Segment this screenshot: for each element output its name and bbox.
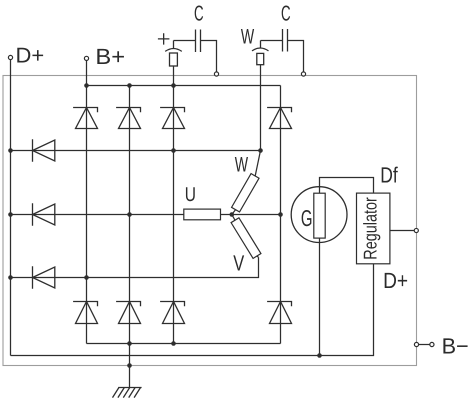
ground symbol <box>113 387 142 397</box>
terminal circle C1 to frame <box>214 72 218 76</box>
wire exciter row 2 <box>11 214 184 216</box>
rotor generator G <box>291 187 347 243</box>
terminal B+ <box>84 56 88 60</box>
diode bottom 4 <box>267 302 291 324</box>
wire regulator to frame <box>390 230 414 232</box>
diode bottom 3 <box>160 302 184 324</box>
wire D+ bottom bus to regulator <box>11 264 374 356</box>
blade connector B+ <box>165 41 182 67</box>
diode top 1 <box>73 108 97 129</box>
exciter diode 1 <box>33 139 55 161</box>
wire phase 3 (W) column <box>173 66 175 344</box>
wire star point to 4th column <box>232 214 281 216</box>
terminal D+ <box>8 55 12 59</box>
svg-text:D+: D+ <box>16 44 45 68</box>
wire exciter row 1 <box>11 150 261 152</box>
stator winding V <box>231 218 261 259</box>
wire B- stub <box>419 344 430 346</box>
label + (B+ blade) <box>158 33 170 44</box>
terminal frame B- <box>414 342 418 346</box>
diode bottom 2 <box>116 302 140 324</box>
stator winding W <box>232 174 259 212</box>
diode bottom 1 <box>73 302 97 324</box>
svg-text:W: W <box>235 153 248 176</box>
terminal B- <box>430 342 434 346</box>
wire phase 2 (U) column <box>129 86 131 388</box>
diode top 3 <box>160 108 184 129</box>
alternator housing frame (ground) <box>3 76 417 366</box>
wire star to W winding <box>232 210 236 215</box>
wire V winding to row 3 <box>257 256 259 257</box>
svg-text:C: C <box>281 2 291 26</box>
wire D+ vertical bus <box>10 60 12 356</box>
wire W terminal drop <box>260 65 262 151</box>
svg-text:D+: D+ <box>383 268 408 293</box>
svg-text:U: U <box>185 184 196 206</box>
svg-text:Df: Df <box>380 162 398 187</box>
svg-text:G: G <box>301 205 313 231</box>
wire star-point column <box>280 86 282 344</box>
wire negative bus <box>87 343 281 345</box>
wire B+ bus <box>87 85 281 87</box>
wire star point to U winding <box>221 214 232 216</box>
svg-text:Regulator: Regulator <box>360 197 381 260</box>
wire star to V winding <box>232 215 235 221</box>
stator winding U <box>184 209 221 220</box>
wire exciter row 3 <box>11 257 259 277</box>
diode top 4 <box>267 108 291 129</box>
svg-text:V: V <box>233 251 244 276</box>
svg-text:C: C <box>194 2 204 26</box>
capacitor C1 <box>174 30 217 72</box>
terminal regulator ground <box>414 228 418 232</box>
terminal circle C2 to frame <box>301 72 305 76</box>
svg-text:B+: B+ <box>95 44 125 69</box>
wire phase 1 (V) column <box>86 86 88 344</box>
wire W winding to phase node <box>255 151 260 176</box>
exciter diode 3 <box>33 266 55 288</box>
wire field to Df <box>320 178 374 194</box>
wire field to D+ bus <box>319 238 321 355</box>
capacitor C2 <box>261 29 304 72</box>
svg-text:W: W <box>241 26 254 49</box>
blade connector W <box>252 41 269 65</box>
field winding <box>314 193 325 238</box>
exciter diode 2 <box>33 203 55 225</box>
diode top 2 <box>116 108 140 129</box>
svg-text:B−: B− <box>442 333 469 358</box>
regulator U1 <box>357 193 390 264</box>
wire B+ lead <box>86 61 88 86</box>
